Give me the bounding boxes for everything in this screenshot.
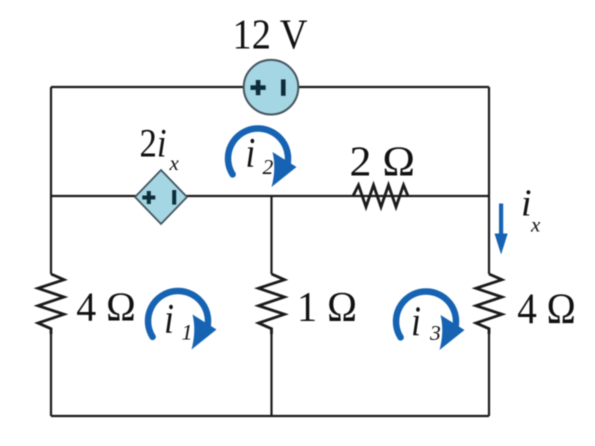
svg-text:1: 1 [182, 320, 193, 345]
svg-text:4 Ω: 4 Ω [517, 286, 576, 333]
svg-text:x: x [169, 151, 180, 175]
svg-text:i: i [164, 296, 174, 343]
svg-text:i: i [411, 299, 421, 346]
svg-text:3: 3 [429, 321, 441, 345]
svg-text:12 V: 12 V [233, 13, 308, 59]
svg-text:2i: 2i [140, 122, 167, 166]
svg-text:i: i [521, 183, 532, 225]
svg-text:1 Ω: 1 Ω [297, 285, 357, 331]
svg-text:4 Ω: 4 Ω [76, 284, 136, 330]
svg-text:2 Ω: 2 Ω [350, 140, 416, 186]
svg-text:2: 2 [263, 155, 274, 179]
svg-text:x: x [530, 213, 541, 237]
svg-text:i: i [246, 130, 256, 177]
